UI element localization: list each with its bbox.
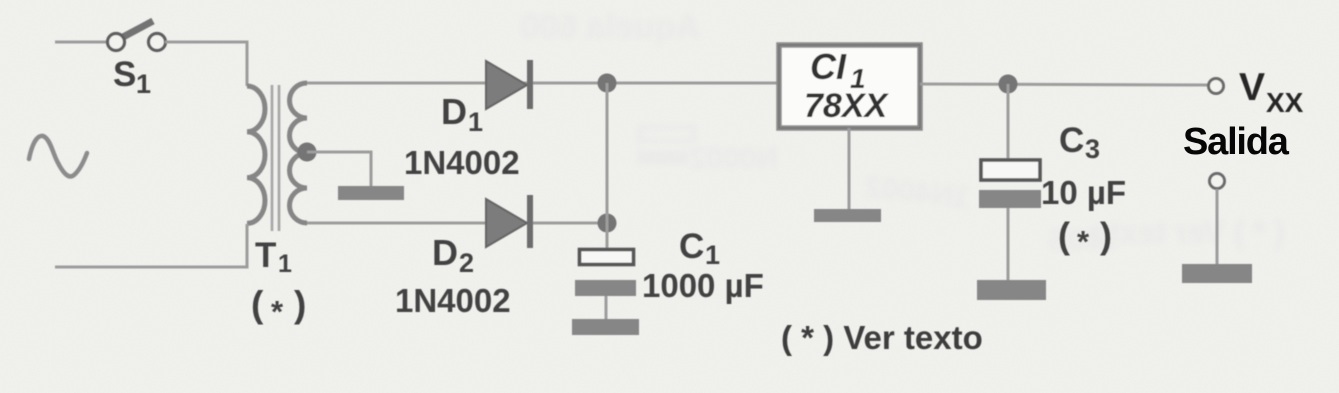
svg-text:( * ) Ver texto: ( * ) Ver texto (1089, 214, 1285, 250)
ground (center tap) (338, 186, 404, 200)
svg-text:3: 3 (1085, 134, 1100, 164)
svg-text:C: C (1059, 121, 1084, 160)
svg-text:1N4002: 1N4002 (404, 144, 520, 181)
node: D2 cathode junction (598, 214, 617, 233)
node: T1 center tap (298, 143, 317, 162)
node: C3 junction (999, 75, 1018, 94)
wire: switch to transformer primary top (165, 42, 247, 86)
wire: bottom rail (secondary bottom to C1 junction) (307, 222, 607, 225)
svg-text:( * ) Ver texto: ( * ) Ver texto (781, 319, 983, 356)
wire: CI1 ground lead (848, 128, 851, 209)
label T1 (255, 236, 292, 278)
svg-text:78XX: 78XX (804, 87, 889, 125)
label Vxx (1239, 66, 1304, 118)
svg-text:1: 1 (136, 69, 151, 99)
capacitor C1 (575, 250, 636, 320)
transformer T1 primary winding (247, 86, 265, 223)
svg-text:): ) (294, 284, 306, 325)
node: return output terminal (1210, 174, 1225, 189)
wire: top rail (secondary top to CI1) (307, 82, 779, 85)
wire: center tap to ground (307, 152, 371, 186)
label C3 (1059, 121, 1100, 164)
svg-text:V: V (1239, 66, 1265, 109)
label S1 (113, 55, 151, 99)
svg-text:Salida: Salida (1183, 121, 1290, 163)
label D2 (432, 232, 474, 278)
label C1 (679, 227, 720, 270)
transformer T1 secondary winding (290, 83, 307, 223)
svg-text:S: S (113, 55, 136, 94)
svg-text:1000 µF: 1000 µF (642, 267, 764, 304)
capacitor C3 (979, 160, 1041, 280)
svg-text:*: * (271, 294, 284, 329)
svg-text:T: T (255, 236, 276, 275)
svg-text:*: * (1077, 224, 1090, 259)
svg-text:10 µF: 10 µF (1041, 174, 1126, 211)
regulator CI1 (78XX) (779, 45, 920, 128)
wire: top-left to switch (55, 41, 107, 44)
svg-text:XX: XX (1266, 87, 1304, 118)
label CI1 (804, 46, 889, 125)
svg-text:1: 1 (468, 107, 483, 137)
svg-text:C: C (679, 227, 704, 266)
wire: primary bottom to lower-left (55, 224, 247, 267)
ground (CI1) (814, 209, 881, 222)
svg-text:2: 2 (459, 248, 474, 278)
ground (output return) (1182, 264, 1252, 283)
svg-text:N0002: N0002 (690, 142, 778, 175)
wire: junction to C3 (1007, 84, 1010, 160)
diode D2 (486, 195, 533, 248)
ground (C3) (977, 280, 1046, 300)
svg-text:D: D (432, 232, 458, 273)
svg-text:(: ( (251, 284, 264, 325)
label ( * ) under T1 (251, 284, 306, 329)
scan bleed-through ghosts (decorative) (520, 8, 1285, 257)
svg-text:(: ( (1058, 215, 1070, 256)
wire: CI1 output rail to Vxx terminal (920, 84, 1209, 85)
node: Vxx output terminal (1209, 79, 1224, 94)
transformer T1 core (272, 85, 279, 231)
svg-text:D: D (441, 91, 467, 132)
wire: return terminal to ground (1216, 189, 1219, 264)
svg-text:1N4002: 1N4002 (395, 282, 511, 319)
label D1 (441, 91, 483, 137)
diode D1 (486, 60, 533, 109)
label ( * ) near C3 (1058, 215, 1112, 259)
svg-text:1: 1 (705, 240, 720, 270)
svg-text:Aquela 600: Aquela 600 (520, 8, 700, 46)
svg-text:): ) (1100, 215, 1112, 256)
ground (C1) (572, 319, 639, 335)
switch S1 (108, 21, 166, 51)
svg-text:1: 1 (278, 250, 292, 278)
AC source sine symbol (29, 136, 87, 177)
svg-text:CI: CI (810, 46, 847, 87)
wire: junction column to C1 (606, 83, 609, 249)
node: D1 cathode junction (598, 74, 617, 93)
